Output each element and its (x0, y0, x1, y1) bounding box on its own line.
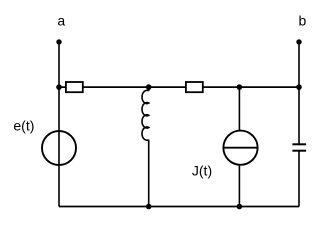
wire: right branch vertical lower (capacitor to bottom) (298, 151, 300, 207)
wire: inductor bottom stub (148, 140, 150, 207)
junction: bottom wire / inductor branch (146, 204, 152, 210)
capacitor C plate top (292, 143, 306, 145)
capacitor C plate bottom (292, 150, 306, 152)
terminal a (56, 39, 61, 44)
svg-text:e(t): e(t) (13, 118, 34, 134)
wire: inductor top stub (148, 87, 150, 91)
wire: left branch vertical (a to bottom, through e(t)) (58, 42, 60, 207)
resistor R2 (186, 82, 203, 92)
junction: top wire / inductor branch (146, 84, 152, 90)
resistor R1 (66, 82, 83, 92)
junction: bottom wire / J(t) branch (237, 204, 243, 210)
wire: bottom horizontal bus (59, 206, 299, 208)
svg-text:a: a (57, 13, 65, 29)
svg-text:b: b (299, 13, 307, 29)
current source J(t) bar (223, 147, 257, 149)
wire: top horizontal bus (59, 86, 299, 88)
junction: top wire / b branch (296, 84, 302, 90)
terminal b (296, 39, 301, 44)
junction: top wire / J(t) branch (237, 84, 243, 90)
inductor L1 (142, 90, 149, 140)
svg-text:J(t): J(t) (192, 163, 212, 179)
junction: top wire / a branch (56, 84, 62, 90)
wire: J(t) top stub (238, 87, 240, 131)
voltage source e(t) (42, 131, 76, 165)
wire: right branch vertical upper (b to capacitor) (298, 42, 300, 144)
wire: J(t) bottom stub (238, 165, 240, 207)
current source J(t) (223, 131, 257, 165)
